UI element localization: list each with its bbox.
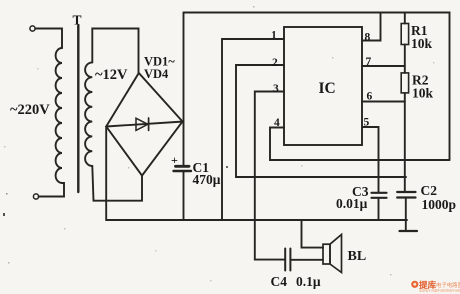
svg-text:VD4: VD4 — [144, 67, 169, 81]
svg-text:BL: BL — [348, 249, 367, 264]
svg-text:~12V: ~12V — [95, 67, 128, 83]
svg-text:T: T — [73, 13, 82, 28]
svg-text:C4: C4 — [271, 274, 288, 289]
svg-text:5: 5 — [364, 117, 370, 129]
svg-text:1000p: 1000p — [422, 197, 457, 212]
svg-text:1: 1 — [271, 30, 277, 42]
svg-text:全球电子元器件资料查询平台网站: 全球电子元器件资料查询平台网站 — [419, 288, 460, 293]
svg-text:3: 3 — [273, 83, 279, 95]
svg-text:+: + — [171, 153, 178, 167]
svg-text:IC: IC — [319, 80, 336, 97]
svg-text:4: 4 — [274, 117, 280, 129]
svg-text:10k: 10k — [412, 86, 434, 101]
svg-text:2: 2 — [272, 57, 278, 69]
svg-text:8: 8 — [365, 32, 371, 44]
svg-text:0.01μ: 0.01μ — [336, 196, 368, 211]
svg-text:~220V: ~220V — [10, 102, 50, 118]
svg-text:0.1μ: 0.1μ — [296, 274, 321, 289]
svg-text:470μ: 470μ — [193, 172, 221, 187]
svg-text:6: 6 — [367, 91, 373, 103]
svg-text:7: 7 — [366, 56, 372, 68]
svg-text:10k: 10k — [411, 36, 433, 51]
svg-text:C2: C2 — [421, 183, 438, 198]
